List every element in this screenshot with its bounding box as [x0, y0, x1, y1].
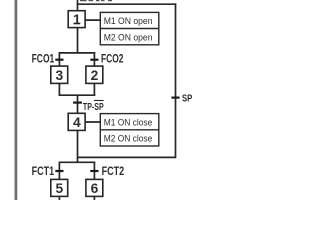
- svg-text:FCO1: FCO1: [32, 52, 55, 65]
- svg-text:SP: SP: [182, 94, 192, 105]
- svg-text:1: 1: [73, 12, 81, 27]
- svg-text:3: 3: [56, 68, 64, 83]
- svg-text:5: 5: [56, 181, 64, 196]
- svg-text:M2 ON close: M2 ON close: [104, 134, 153, 144]
- svg-text:M1 ON open: M1 ON open: [104, 16, 153, 26]
- svg-text:M2 ON open: M2 ON open: [104, 32, 153, 42]
- svg-text:TP-SP: TP-SP: [83, 102, 104, 113]
- svg-text:FCO2: FCO2: [101, 52, 124, 65]
- svg-text:6: 6: [91, 181, 99, 196]
- svg-text:M1 ON close: M1 ON close: [104, 118, 153, 128]
- svg-text:2: 2: [91, 68, 99, 83]
- svg-text:FCT1: FCT1: [32, 165, 55, 178]
- svg-text:FCT2: FCT2: [102, 165, 125, 178]
- svg-text:4: 4: [73, 115, 81, 130]
